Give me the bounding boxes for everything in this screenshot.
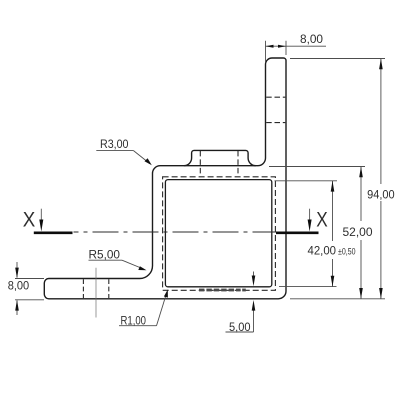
boss bump on top edge [184, 150, 256, 165]
dimension 5,00 leader and arrows [226, 272, 256, 333]
inner square opening (solid edge) [165, 180, 271, 287]
hidden line flange hole right [108, 279, 110, 298]
dimension line 42,00 [331, 181, 335, 287]
extension line bottom (94/52) [290, 298, 385, 300]
hidden line bump right [237, 151, 239, 177]
hidden edge dashed rectangle [163, 177, 276, 290]
dimension line 52,00 [359, 167, 363, 299]
svg-text:94,00: 94,00 [367, 187, 395, 201]
hidden line bump left [199, 151, 201, 177]
svg-text:±0,50: ±0,50 [338, 247, 356, 257]
svg-text:5,00: 5,00 [229, 320, 251, 334]
hidden line flange hole left [82, 279, 84, 298]
section arrow right [308, 209, 312, 232]
extension line 8 flange bottom [15, 299, 44, 301]
leader R3,00 [96, 151, 152, 166]
dimension line 8,00 top [266, 45, 327, 48]
leader R1,00 [119, 289, 168, 325]
flange hole centerline [95, 268, 97, 318]
svg-text:8,00: 8,00 [300, 32, 323, 46]
extension line dim 8 top left [265, 41, 267, 63]
extension line 94 top [290, 58, 385, 60]
svg-text:52,00: 52,00 [343, 225, 373, 239]
extension line dim 8 top right [285, 41, 287, 55]
extension line 8 flange top [15, 278, 44, 280]
leader R5,00 [89, 260, 147, 270]
section arrow left [39, 209, 43, 232]
dimension line 94,00 [379, 59, 383, 299]
tiny watermark text on dashed edge [199, 289, 246, 292]
section line thick left [34, 231, 73, 234]
hidden line arm hole upper [266, 96, 285, 98]
svg-text:42,00: 42,00 [308, 244, 337, 258]
svg-text:R5,00: R5,00 [89, 247, 121, 261]
svg-text:X: X [316, 208, 328, 231]
svg-text:8,00: 8,00 [8, 278, 30, 292]
part outer profile [44, 58, 286, 299]
extension line 42 bottom [279, 286, 337, 288]
svg-text:X: X [23, 208, 36, 231]
extension line 52 top [269, 166, 365, 168]
section line thick right [276, 231, 319, 234]
section centerline X-X (dash-dot) [74, 231, 277, 233]
svg-text:R1,00: R1,00 [121, 313, 147, 327]
extension arrow 8 flange top [15, 262, 19, 278]
hidden line arm hole lower [266, 122, 285, 124]
extension line 42 top [275, 180, 338, 182]
svg-text:R3,00: R3,00 [100, 137, 129, 151]
extension arrow 8 flange bottom [15, 300, 19, 315]
